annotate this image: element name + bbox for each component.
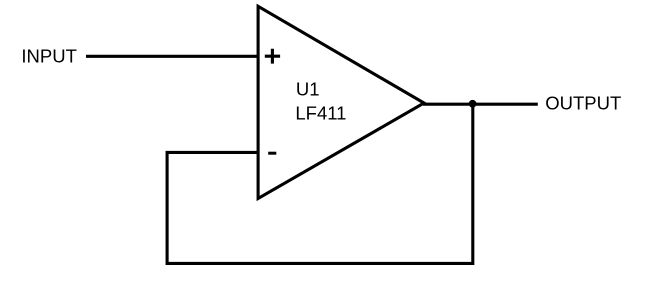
wire feedback loop (167, 104, 473, 263)
svg-text:LF411: LF411 (295, 102, 346, 123)
wire input to noninverting pin (86, 55, 259, 58)
pin - (inverting) (268, 152, 276, 155)
svg-text:INPUT: INPUT (21, 46, 77, 67)
pin + (noninverting) (265, 49, 280, 64)
svg-text:OUTPUT: OUTPUT (545, 93, 621, 114)
svg-text:U1: U1 (296, 79, 320, 100)
op-amp U1 (258, 6, 424, 198)
junction dot (469, 100, 477, 108)
wire output (423, 103, 538, 106)
